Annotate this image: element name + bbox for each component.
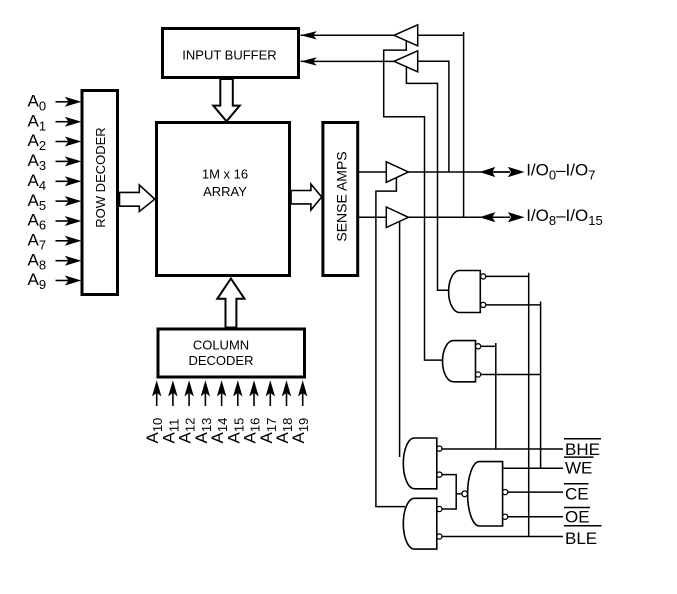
buffer T1 (write data upper) — [394, 25, 418, 46]
svg-text:INPUT BUFFER: INPUT BUFFER — [182, 48, 276, 63]
svg-text:CE: CE — [565, 485, 589, 504]
wire sense-amps to T3 input — [358, 171, 386, 173]
gate G3 (nand, BHE / output enable upper) — [403, 438, 442, 489]
label BLE with overline — [564, 526, 602, 548]
svg-text:WE: WE — [565, 459, 592, 478]
label BHE with overline — [564, 439, 601, 459]
block U4 SENSE AMPS — [323, 123, 358, 276]
wire T2 enable from gate G1 output (bus D) — [406, 67, 450, 290]
wire G3 input2 to G5 output node (bus J) — [442, 475, 456, 509]
input A9 — [28, 270, 82, 292]
svg-text:OE: OE — [565, 508, 590, 527]
input A3 — [28, 151, 82, 173]
block U3 1M x 16 ARRAY — [157, 123, 290, 276]
svg-text:ARRAY: ARRAY — [203, 184, 247, 199]
wire T3 enable from gate G4 output (bus B) — [376, 178, 405, 507]
bus arrow input-buffer to array — [213, 79, 239, 121]
gate G2 (nand, write enable lower byte) — [443, 341, 481, 382]
input A19 — [289, 380, 311, 443]
svg-text:I/O0–I/O7: I/O0–I/O7 — [526, 161, 595, 183]
input A4 — [28, 171, 82, 193]
wire G2 input2 to WE net — [481, 374, 541, 376]
bus arrow array to sense-amps — [291, 184, 322, 210]
wire T4 enable from gate G3 output (bus C) — [399, 221, 401, 457]
input A15 — [224, 380, 246, 443]
label WE with overline — [564, 457, 594, 477]
input A17 — [257, 380, 279, 443]
svg-text:BLE: BLE — [565, 529, 597, 548]
input A2 — [28, 131, 82, 153]
label CE with overline — [564, 484, 589, 504]
block U5 COLUMN DECODER — [158, 329, 305, 377]
bus arrow column-decoder to array — [217, 279, 244, 328]
gate G4 (nand, BLE / output enable lower) — [403, 498, 442, 549]
input A0 — [28, 92, 82, 114]
wire T1 enable from gate G2 output (bus A) — [384, 41, 444, 360]
wire BHE net: G3 input1 to label — [442, 448, 563, 450]
wire T2 input from I/O0-7 node (bus E) — [418, 61, 449, 172]
gate G1 (nand, write enable upper byte) — [449, 271, 486, 313]
node I/O8-I/O15 line with bidirectional arrows — [408, 206, 602, 228]
input A6 — [28, 211, 82, 233]
gate G5 (nand, chip/output enable combiner) — [462, 462, 508, 526]
wire T1 input from I/O8-15 node (bus F) — [418, 32, 464, 217]
block U1 INPUT BUFFER — [163, 29, 299, 78]
buffer T3 (read data to I/O0-7) — [386, 162, 408, 183]
svg-text:COLUMN: COLUMN — [193, 337, 249, 352]
wire CE net: G5 input2 to label — [508, 491, 563, 493]
wire T2 output to input buffer with arrowhead — [301, 57, 395, 65]
wire WE net: G5 input1 to label — [503, 467, 563, 469]
input A18 — [273, 380, 295, 443]
wire G1 input2 to WE net (bus H) — [486, 302, 541, 469]
input A5 — [28, 191, 82, 213]
wire T1 output to input buffer with arrowhead — [301, 31, 395, 39]
block U2 ROW DECODER — [82, 91, 118, 295]
input A1 — [28, 111, 82, 133]
svg-text:BHE: BHE — [565, 440, 600, 459]
wire G2 input1 to BHE net (bus I) — [481, 343, 496, 449]
input A16 — [241, 380, 263, 443]
wire OE net: G5 input3 to label — [508, 516, 563, 518]
input A8 — [28, 250, 82, 272]
svg-text:DECODER: DECODER — [188, 353, 253, 368]
svg-text:ROW DECODER: ROW DECODER — [93, 127, 108, 227]
input A11 — [159, 380, 181, 443]
buffer T2 (write data lower) — [394, 51, 418, 72]
wire sense-amps to T4 input — [358, 216, 386, 218]
svg-text:1M x 16: 1M x 16 — [202, 166, 248, 181]
wire G1 input1 to BLE net (bus G) — [486, 273, 529, 537]
input A10 — [143, 380, 165, 443]
wire G5 output to G3/G4 inputs — [456, 493, 462, 495]
wire BLE net: G4 input2 to label — [442, 536, 563, 538]
input A12 — [176, 380, 198, 443]
input A7 — [28, 231, 82, 253]
input A13 — [192, 380, 214, 443]
bus arrow row-decoder to array — [120, 185, 155, 212]
svg-text:SENSE AMPS: SENSE AMPS — [334, 151, 350, 241]
node I/O0-I/O7 line with bidirectional arrows — [408, 161, 595, 183]
buffer T4 (read data to I/O8-15) — [386, 207, 408, 228]
input A14 — [208, 380, 230, 443]
label OE with overline — [564, 508, 590, 527]
